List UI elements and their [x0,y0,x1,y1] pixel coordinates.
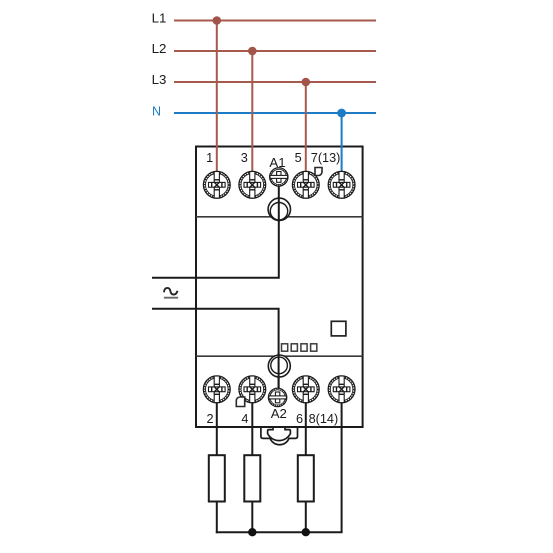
device outline [196,147,363,428]
terminal screw 2 [203,376,230,403]
wire below resistor 1 [216,502,218,534]
wire drop L3 to terminal 5 [305,82,307,173]
junction L3 [302,78,311,87]
wire below resistor 2 [251,502,253,534]
wire L2 [174,50,376,52]
coil wire from AC source to A2 [152,309,279,389]
load wire from terminal 6 [305,403,307,455]
wire below resistor 3 [305,502,307,534]
coil terminal screw A1 [270,168,288,186]
svg-text:6: 6 [296,412,303,426]
wire drop L1 to terminal 1 [216,21,218,173]
flag marker top (NO contact indicator) [315,168,322,176]
terminal screw 4 [239,376,266,403]
knob top (manual actuator) [268,198,290,220]
coil terminal screw A2 [268,388,286,406]
svg-text:L3: L3 [152,72,167,87]
terminal screw 7 [328,171,355,198]
bus junction under 6 [302,528,310,536]
DIN rail clip inner [268,427,291,440]
junction L2 [248,47,257,56]
coil wire from A1 down and left to AC source [152,186,279,277]
terminal screw 8 [328,376,355,403]
load resistor 1 [209,455,225,501]
wire N [174,112,376,114]
svg-text:1: 1 [206,151,213,165]
svg-text:3: 3 [241,151,248,165]
svg-text:5: 5 [295,151,302,165]
wire L1 [174,20,376,22]
load resistor 2 [244,455,260,501]
svg-text:L2: L2 [152,41,167,56]
wire drop N to terminal 7 [341,113,343,173]
load wire from terminal 2 [216,403,218,455]
svg-text:8(14): 8(14) [309,412,339,426]
svg-text:7(13): 7(13) [311,151,341,165]
terminal screw 5 [292,171,319,198]
vent slots (4 small squares) [282,344,317,351]
flag marker bottom [236,397,244,407]
svg-text:4: 4 [241,412,248,426]
terminal screw 1 [203,171,230,198]
terminal screw 3 [239,171,266,198]
svg-text:2: 2 [206,412,213,426]
svg-text:L1: L1 [152,11,167,26]
svg-text:N: N [152,104,161,118]
svg-text:A2: A2 [271,406,287,421]
wire L3 [174,81,376,83]
terminal screw 6 [292,376,319,403]
junction L1 [213,16,222,25]
junction N [337,109,346,118]
bottom bus wire [216,531,343,533]
knob bottom [268,355,290,377]
load resistor 3 [298,455,314,501]
load wire from terminal 4 [251,403,253,455]
divider top [196,216,363,218]
wire through knob top [278,198,280,222]
divider bottom [196,355,363,357]
indicator window square [331,321,346,336]
wire drop L2 to terminal 3 [251,51,253,173]
wire through knob bottom [278,353,280,388]
DIN rail clip outer [261,427,298,445]
AC supply symbol [164,288,178,298]
wire from terminal 8 to bus [341,403,343,532]
bus junction under 4 [248,528,256,536]
